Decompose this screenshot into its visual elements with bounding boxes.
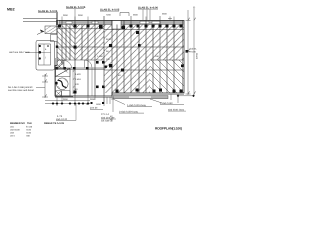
door arc 2 [85,60,93,68]
label top underlined 3 [100,9,120,12]
spiral stair [55,78,68,90]
svg-text:MB2: MB2 [7,8,15,12]
hatch right section slash top [150,25,184,61]
svg-text:THK: THK [27,122,32,125]
detail box left [36,41,55,71]
columns bottom row [116,50,189,93]
bottom-left dark wall [55,96,73,98]
bottom dim area left [45,96,112,106]
svg-text:see GS notes and detail: see GS notes and detail [8,89,34,92]
ramp arrow left [40,30,45,32]
columns middle rows [56,31,184,94]
small dim texts inside plan [75,38,159,91]
svg-text:h=120: h=120 [26,126,33,129]
svg-text:1-150: 1-150 [97,55,103,58]
stair left-top notch [45,26,57,34]
plan outline [55,20,184,96]
top grid ticks and dim text [62,17,174,21]
door arc 1 [64,61,72,69]
hatch right section backslash bottom [150,60,184,93]
left edge inner line [55,58,57,96]
right dim lines [186,8,196,95]
svg-text:h120: h120 [106,38,112,41]
svg-text:slab EL: slab EL [190,48,198,51]
wall left double vertical [55,12,57,25]
svg-text:h-0.05: h-0.05 [190,51,197,54]
note block bottom center [101,113,115,123]
section lines left [23,18,57,20]
small label bottom center [86,102,104,110]
top wall gray band [59,21,112,25]
label top underlined 2 [66,6,86,9]
svg-text:2-d18: 2-d18 [75,78,81,81]
diagonal hatch box left room [56,69,71,77]
stair triangle left [57,60,64,68]
bottom gray wall band [113,96,168,99]
svg-text:=150: =150 [26,132,32,135]
label top underlined 4 [138,7,158,10]
hatch left-top chevron slash part [75,25,104,61]
columns top row [58,25,183,30]
svg-text:4-d20: 4-d20 [75,73,81,76]
svg-text:jnt: jnt [109,115,113,118]
small box below notch [51,35,58,42]
opening box top [112,21,121,30]
hatch middle section slash [104,25,150,94]
table bottom left [10,122,65,125]
bottom edge inner lines [112,93,184,95]
svg-text:h-0.05: h-0.05 [57,122,65,125]
dim line room middle [73,70,74,94]
svg-text:1?1-1-4: 1?1-1-4 [101,113,110,116]
right edge inner line [182,21,184,94]
interior vertical lines [62,16,174,96]
svg-text:LB2 B100: LB2 B100 [10,129,20,132]
x-braced box bottom-left room [56,91,62,96]
hatch left-top section backslash [57,25,75,61]
svg-text:21600: 21600 [195,53,198,60]
bracket top [120,13,129,17]
svg-text:LB-4: LB-4 [10,135,15,138]
svg-text:REBAR TB: REBAR TB [44,122,57,125]
svg-text:MEMBER NO: MEMBER NO [10,122,25,125]
beam white boxes on band [140,21,149,24]
leader lines bottom center [104,97,162,112]
svg-text:=100: =100 [26,129,32,132]
svg-text:ROOFPLAN(1:100): ROOFPLAN(1:100) [155,126,182,130]
left dim line [42,73,48,98]
label top underlined 1 [38,10,58,13]
interior horizontal lines [55,29,184,96]
